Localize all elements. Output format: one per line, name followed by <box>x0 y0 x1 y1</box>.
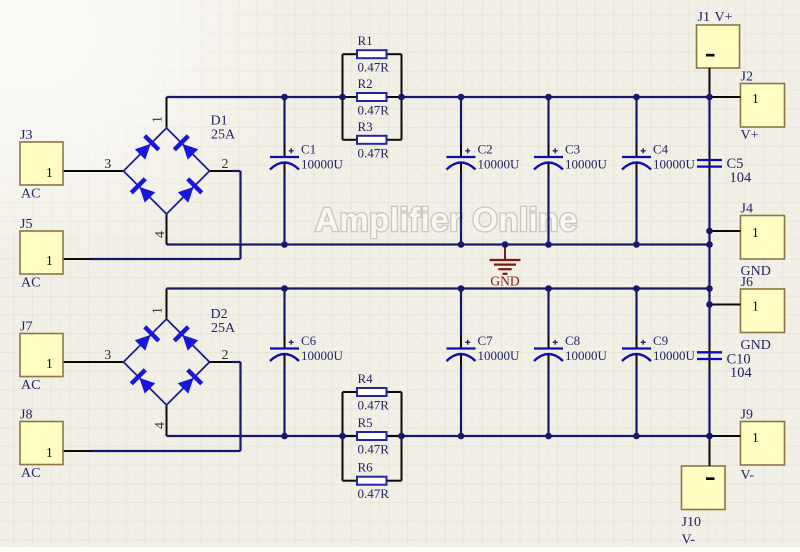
resistor R6 stub wires <box>343 480 402 482</box>
watermark Amplifier Online <box>315 201 578 238</box>
svg-text:GND: GND <box>741 338 771 353</box>
svg-text:R4: R4 <box>358 371 374 386</box>
C2 designator and value labels <box>478 142 521 172</box>
svg-text:10000U: 10000U <box>301 157 344 172</box>
connector J2 box <box>741 84 785 128</box>
svg-text:C6: C6 <box>301 333 317 348</box>
svg-text:R3: R3 <box>358 119 373 134</box>
wire C3 column lower segment <box>547 173 549 245</box>
capacitor C2 symbol (polarized) <box>447 148 476 169</box>
D1 pin number 1 (rotated) <box>150 116 165 123</box>
wire right vertical GND segment <box>708 178 710 342</box>
D2 pin number 3 <box>104 348 111 363</box>
wire C8 column upper segment <box>547 289 549 338</box>
junction dots on GND rail upper <box>281 241 713 248</box>
wire C2 column lower segment <box>460 173 462 245</box>
svg-text:10000U: 10000U <box>478 157 521 172</box>
svg-text:1: 1 <box>752 299 759 314</box>
svg-text:J5: J5 <box>20 217 32 232</box>
J8 designator label <box>20 408 32 423</box>
capacitor C2 pin stubs (black) <box>460 145 462 175</box>
capacitor C8 symbol (polarized) <box>534 340 563 361</box>
capacitor C6 pin stubs (black) <box>284 337 286 367</box>
svg-text:R6: R6 <box>358 460 374 475</box>
svg-text:10000U: 10000U <box>653 157 696 172</box>
J8 net label AC <box>21 466 40 481</box>
J2 pin 1 number <box>752 91 759 106</box>
wire D2 top vertex to GND rail <box>166 289 168 320</box>
J5 net label AC <box>21 276 40 291</box>
R2 designator and value labels <box>358 76 390 118</box>
wire C7 column lower segment <box>460 365 462 437</box>
capacitor C8 pin stubs (black) <box>548 337 550 367</box>
D1 pin number 4 (rotated) <box>153 231 168 238</box>
J4 pin 1 number <box>752 225 759 240</box>
J2 pin wire <box>710 96 741 98</box>
C4 designator and value labels <box>653 142 696 172</box>
junction dots on GND rail lower <box>281 285 713 292</box>
J3 designator label <box>20 128 32 143</box>
J8 pin 1 number <box>46 445 53 460</box>
connector J7 box <box>20 334 63 377</box>
svg-text:J10: J10 <box>682 515 701 530</box>
resistor R1 body <box>357 50 387 58</box>
D1 pin number 3 <box>104 157 111 172</box>
D2 designator label <box>211 307 237 336</box>
svg-text:1: 1 <box>150 307 165 314</box>
C7 designator and value labels <box>478 333 521 363</box>
junction dots on right vertical (J4 and J6 pins) <box>706 228 713 308</box>
wire C8 column lower segment <box>547 365 549 437</box>
diode D2 bottom-left (points to AC node) <box>130 368 157 395</box>
D1 designator label <box>211 114 237 143</box>
J5 pin 1 number <box>46 253 53 268</box>
svg-text:2: 2 <box>222 157 229 172</box>
J7 net label AC <box>21 378 40 393</box>
diode D1 top-left (points to + node) <box>133 134 160 161</box>
wire C7 column upper segment <box>460 289 462 338</box>
resistor R3 body <box>357 136 387 144</box>
svg-text:104: 104 <box>730 365 753 381</box>
svg-text:1: 1 <box>46 445 53 460</box>
connector J9 box <box>741 422 785 466</box>
svg-text:25A: 25A <box>211 128 236 143</box>
wire C9 column upper segment <box>635 289 637 338</box>
wire C1 column upper segment <box>283 97 285 146</box>
diode D2 top-right (points to + node) <box>173 325 200 352</box>
svg-text:V+: V+ <box>715 10 733 25</box>
connector J1 box <box>697 25 740 68</box>
diode D2 bottom-right (points to AC node) <box>176 368 203 395</box>
svg-text:C7: C7 <box>478 333 494 348</box>
J1 pin wire <box>709 68 711 97</box>
capacitor C9 pin stubs (black) <box>636 337 638 367</box>
wire V+ rail <box>167 96 710 98</box>
resistor R4 body <box>357 388 387 396</box>
J2 designator label <box>741 70 753 85</box>
junction dots on V+ rail <box>281 94 713 101</box>
svg-text:D2: D2 <box>211 307 228 322</box>
svg-text:AC: AC <box>21 276 40 291</box>
R3 designator and value labels <box>358 119 390 161</box>
J6 designator label <box>741 275 753 290</box>
diode D1 top-right (points to + node) <box>173 134 200 161</box>
wire C6 column lower segment <box>283 365 285 437</box>
svg-text:2: 2 <box>222 348 229 363</box>
J10 designator and net label <box>682 515 701 548</box>
svg-text:D1: D1 <box>211 114 228 129</box>
svg-text:AC: AC <box>21 187 40 202</box>
svg-text:10000U: 10000U <box>565 348 608 363</box>
capacitor C7 symbol (polarized) <box>447 340 476 361</box>
J6 pin 1 number <box>752 299 759 314</box>
ground symbol GND <box>490 245 521 274</box>
svg-text:4: 4 <box>153 231 168 238</box>
J10 pin 1 number (rotated) <box>706 477 715 480</box>
D2 pin number 2 <box>222 348 229 363</box>
J2 net label V+ <box>741 128 759 143</box>
J9 pin 1 number <box>752 430 759 445</box>
svg-text:1: 1 <box>752 91 759 106</box>
svg-text:J7: J7 <box>20 320 32 335</box>
junction dots on V- rail <box>281 433 713 440</box>
R4 designator and value labels <box>358 371 390 413</box>
J9 designator label <box>741 408 753 423</box>
GND net label <box>490 274 519 289</box>
svg-text:10000U: 10000U <box>301 348 344 363</box>
wire C9 column lower segment <box>635 365 637 437</box>
svg-text:Amplifier Online: Amplifier Online <box>315 201 578 238</box>
svg-text:C8: C8 <box>565 333 580 348</box>
wire resistor bank bottom left bus <box>342 392 344 481</box>
svg-text:0.47R: 0.47R <box>358 486 390 501</box>
svg-text:4: 4 <box>153 422 168 429</box>
J4 net label GND <box>741 264 771 279</box>
svg-text:R1: R1 <box>358 33 373 48</box>
capacitor C7 pin stubs (black) <box>460 337 462 367</box>
capacitor C5 symbol (104) <box>697 149 722 178</box>
svg-text:3: 3 <box>104 157 111 172</box>
D2 pin number 4 (rotated) <box>153 422 168 429</box>
wire D1 bottom vertex to GND rail <box>166 214 168 245</box>
svg-text:AC: AC <box>21 466 40 481</box>
C9 designator and value labels <box>653 333 696 363</box>
connector J5 box <box>20 231 63 274</box>
wire C6 column upper segment <box>283 289 285 338</box>
resistor R5 stub wires <box>343 435 402 437</box>
J9 pin wire <box>710 435 741 437</box>
capacitor C1 symbol (polarized) <box>270 148 299 169</box>
svg-text:J9: J9 <box>741 408 753 423</box>
svg-text:1: 1 <box>46 253 53 268</box>
capacitor C10 symbol (104) <box>697 341 722 371</box>
J10 pin wire <box>709 436 711 466</box>
svg-text:R2: R2 <box>358 76 373 91</box>
svg-text:C9: C9 <box>653 333 668 348</box>
wire J8 to D2 node 2 <box>63 362 241 451</box>
J5 designator label <box>20 217 32 232</box>
svg-text:V-: V- <box>741 468 755 483</box>
wire D2 bottom vertex to V- rail <box>166 405 168 436</box>
svg-text:0.47R: 0.47R <box>358 103 390 118</box>
svg-text:0.47R: 0.47R <box>358 442 390 457</box>
bridge rectifier D2 diamond outline <box>124 319 210 405</box>
svg-text:3: 3 <box>104 348 111 363</box>
wire resistor bank bottom right bus <box>401 392 403 481</box>
svg-text:0.47R: 0.47R <box>358 60 390 75</box>
capacitor C4 symbol (polarized) <box>622 148 651 169</box>
svg-text:1: 1 <box>752 430 759 445</box>
connector J4 box <box>741 216 785 260</box>
svg-text:J4: J4 <box>741 202 753 217</box>
bridge rectifier D1 diamond outline <box>124 128 210 214</box>
J3 net label AC <box>21 187 40 202</box>
J1 pin 1 number (rotated) <box>706 54 715 57</box>
resistor R3 stub wires <box>343 139 402 141</box>
resistor R2 body <box>357 93 387 101</box>
connector J10 box <box>682 466 726 510</box>
svg-text:0.47R: 0.47R <box>358 145 390 160</box>
svg-text:10000U: 10000U <box>565 157 608 172</box>
svg-text:10000U: 10000U <box>653 348 696 363</box>
svg-text:1: 1 <box>46 165 53 180</box>
resistor R1 stub wires <box>343 53 402 55</box>
wire J5 to D1 node 2 <box>63 171 241 259</box>
resistor R2 stub wires <box>343 96 402 98</box>
svg-text:1: 1 <box>752 225 759 240</box>
svg-text:J1: J1 <box>698 10 710 25</box>
J7 designator label <box>20 320 32 335</box>
J3 pin 1 number <box>46 165 53 180</box>
svg-text:J8: J8 <box>20 408 32 423</box>
wire C3 column upper segment <box>547 97 549 146</box>
wire resistor bank top right bus <box>401 54 403 140</box>
capacitor C3 pin stubs (black) <box>548 145 550 175</box>
R6 designator and value labels <box>358 460 390 502</box>
wire GND rail (upper) <box>167 243 710 245</box>
J6 pin wire <box>710 304 741 306</box>
svg-text:C1: C1 <box>301 142 316 157</box>
J9 net label V- <box>741 468 755 483</box>
C3 designator and value labels <box>565 142 608 172</box>
svg-text:R5: R5 <box>358 415 373 430</box>
D1 pin number 2 <box>222 157 229 172</box>
svg-text:C2: C2 <box>478 142 493 157</box>
connector J6 box <box>741 289 785 333</box>
D2 pin number 1 (rotated) <box>150 307 165 314</box>
R1 designator and value labels <box>358 33 390 74</box>
resistor R4 stub wires <box>343 391 402 393</box>
C1 designator and value labels <box>301 142 344 172</box>
wire C1 column lower segment <box>283 173 285 245</box>
connector J8 box <box>20 422 63 465</box>
svg-text:J2: J2 <box>741 70 753 85</box>
J4 pin wire <box>710 230 741 232</box>
C5 designator and value labels <box>727 156 753 186</box>
diode D1 bottom-left (points to AC node) <box>130 177 157 204</box>
capacitor C1 pin stubs (black) <box>284 145 286 175</box>
wire V- rail <box>167 435 710 437</box>
capacitor C6 symbol (polarized) <box>270 340 299 361</box>
svg-text:GND: GND <box>490 274 519 289</box>
J4 designator label <box>741 202 753 217</box>
svg-text:V+: V+ <box>741 128 759 143</box>
resistor R6 body <box>357 477 387 485</box>
J1 designator and net label <box>698 10 733 25</box>
wire right vertical V- segment <box>708 371 710 437</box>
svg-text:J6: J6 <box>741 275 753 290</box>
wire C2 column upper segment <box>460 97 462 146</box>
wire right vertical V+ segment <box>708 97 710 149</box>
capacitor C4 pin stubs (black) <box>636 145 638 175</box>
svg-text:10000U: 10000U <box>478 348 521 363</box>
C10 designator and value labels <box>727 352 753 382</box>
svg-text:1: 1 <box>46 356 53 371</box>
J6 net label GND <box>741 338 771 353</box>
wire J3 to D1 node 3 <box>63 170 124 172</box>
svg-text:104: 104 <box>730 170 753 186</box>
J7 pin 1 number <box>46 356 53 371</box>
C6 designator and value labels <box>301 333 344 363</box>
svg-text:25A: 25A <box>211 321 236 336</box>
resistor R5 body <box>357 432 387 440</box>
svg-text:AC: AC <box>21 378 40 393</box>
wire C4 column lower segment <box>635 173 637 245</box>
svg-text:C3: C3 <box>565 142 580 157</box>
diode D1 bottom-right (points to AC node) <box>176 177 203 204</box>
connector J3 box <box>20 142 63 185</box>
wire resistor bank top left bus <box>342 54 344 140</box>
svg-text:V-: V- <box>682 533 696 548</box>
wire J7 to D2 node 3 <box>63 361 124 363</box>
capacitor C3 symbol (polarized) <box>534 148 563 169</box>
wire C4 column upper segment <box>635 97 637 146</box>
svg-text:1: 1 <box>150 116 165 123</box>
diode D2 top-left (points to + node) <box>133 325 160 352</box>
C8 designator and value labels <box>565 333 608 363</box>
wire GND rail (lower, D2 positive) <box>167 287 710 289</box>
svg-text:0.47R: 0.47R <box>358 398 390 413</box>
svg-text:C4: C4 <box>653 142 669 157</box>
capacitor C9 symbol (polarized) <box>622 340 651 361</box>
R5 designator and value labels <box>358 415 390 457</box>
svg-text:J3: J3 <box>20 128 32 143</box>
wire D1 top vertex to V+ rail <box>166 97 168 128</box>
